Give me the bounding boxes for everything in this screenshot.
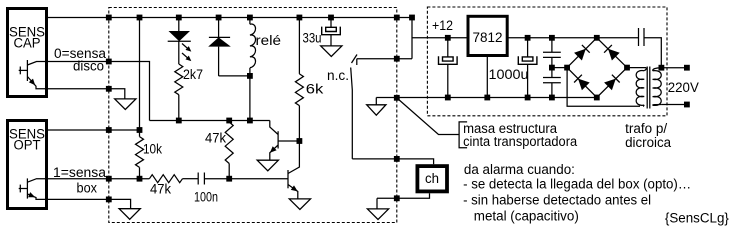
resistor 47k vertical (feedback) (225, 122, 233, 164)
node: relay bottom junction (247, 73, 253, 79)
svg-text:10k: 10k (143, 142, 162, 157)
resistor 2k7 (178, 41, 180, 64)
wire: supply ground rail (376, 97, 597, 99)
svg-text:100n: 100n (194, 190, 218, 205)
ground (321, 46, 342, 57)
wire: +12 feed into supply (412, 37, 467, 39)
svg-text:33u: 33u (303, 31, 322, 46)
sensor module SENS OPT (optical sensor box) (8, 121, 47, 209)
wire: primary to 220V terminals (661, 67, 687, 69)
svg-text:ch: ch (425, 171, 439, 186)
svg-text:1000u: 1000u (489, 67, 529, 82)
wire: rail drop to SENS OPT supply (139, 18, 141, 131)
ground (257, 160, 278, 171)
svg-text:47k: 47k (150, 182, 171, 197)
svg-text:metal (capacitivo): metal (capacitivo) (474, 209, 579, 224)
wire: SENS OPT ground lead (48, 199, 131, 208)
svg-text:47k: 47k (205, 131, 226, 146)
bridge diode D-topright (608, 49, 620, 61)
wire: n.c. bottom to chicharra (352, 159, 433, 164)
wire: 100n to Q2 base (204, 178, 287, 180)
primary winding (653, 68, 662, 71)
svg-text:dicroica: dicroica (625, 135, 671, 150)
bridge diode D-bottomright (604, 79, 616, 91)
node: Q1 base / 6k / Q2 collector (297, 138, 303, 144)
wire: Q2 collector riser (288, 141, 299, 174)
capacitor 33u (322, 18, 341, 46)
svg-text:OPT: OPT (14, 138, 41, 153)
LED indicator (168, 18, 192, 62)
wire: cap stack mid to bridge AC1 (552, 67, 567, 69)
core (646, 67, 648, 109)
svg-text:7812: 7812 (473, 29, 503, 45)
bracket: masa estructura (459, 122, 467, 148)
ground (376, 198, 378, 209)
svg-text:1=sensa: 1=sensa (53, 165, 107, 180)
capacitor 1000u (518, 35, 537, 101)
transistor Q2 (288, 170, 298, 199)
wire: rail corner down to +12 feed (411, 18, 413, 59)
resistor 10k (139, 130, 141, 137)
resistor 47k horizontal (149, 175, 182, 183)
wire: 7812 output / raw DC rail (507, 37, 638, 39)
wire: masa estructura tap (398, 99, 460, 135)
wire: SENS OPT output (1=sensa box) (48, 178, 149, 180)
buzzer ch box (417, 166, 447, 191)
dashed enclosure: power supply (427, 7, 667, 116)
switch n.c. (normally closed contact) (351, 55, 357, 159)
node: sensa disco junction (106, 59, 112, 65)
svg-text:6k: 6k (306, 82, 324, 97)
ground (115, 99, 136, 110)
capacitor (series to primary) (639, 28, 662, 68)
svg-text:2k7: 2k7 (183, 67, 203, 82)
wire: Q1 collector node (relay drive) (150, 120, 270, 122)
phototransistor inside SENS CAP (19, 60, 48, 89)
svg-text:relé: relé (256, 33, 282, 48)
svg-text:box: box (77, 181, 98, 196)
bridge rectifier (564, 35, 630, 101)
secondary winding (627, 68, 646, 71)
phototransistor inside SENS OPT (19, 178, 48, 199)
wire: n.c. top to +12 corner (357, 58, 412, 60)
svg-text:cinta transportadora: cinta transportadora (463, 134, 577, 149)
bridge diode D-bottomleft (578, 79, 590, 91)
wire: SENS CAP ground lead (48, 89, 125, 99)
diode (relay flyback) (208, 18, 231, 76)
svg-text:+12: +12 (432, 18, 453, 33)
svg-text:- se detecta la llegada del bo: - se detecta la llegada del box (opto)… (463, 177, 691, 192)
svg-text:{SensCLg}: {SensCLg} (665, 211, 729, 226)
node +12 (445, 35, 451, 41)
svg-text:disco: disco (73, 58, 104, 73)
ground (119, 209, 140, 220)
wire: diode to relay coil bottom (219, 75, 250, 77)
wire: SENS CAP output (0=sensa disco) (48, 62, 150, 121)
bridge diode D-topleft (574, 49, 586, 61)
wire: ch bottom return (377, 193, 430, 198)
capacitor stack lower (543, 65, 561, 101)
sensor module SENS CAP (capacitive sensor box) (8, 9, 47, 97)
capacitor stack upper (543, 35, 561, 68)
svg-text:trafo p/: trafo p/ (625, 121, 667, 136)
svg-text:- sin haberse detectado antes: - sin haberse detectado antes el (463, 193, 651, 208)
wire: 7812 ground pin (486, 56, 488, 98)
terminal 220V top (684, 65, 690, 71)
wire: bridge AC1 down-around to secondary bottom (567, 68, 640, 107)
ground (375, 98, 377, 105)
node squares on +12 rail (106, 15, 400, 21)
capacitor 100n (197, 173, 199, 185)
svg-text:da alarma cuando:: da alarma cuando: (464, 162, 575, 177)
capacitor (regulator input) (439, 38, 458, 98)
dashed enclosure: alarm logic circuit (109, 8, 397, 223)
relay coil (relé) (250, 18, 256, 121)
resistor 6k (298, 18, 300, 74)
ground (289, 199, 310, 210)
regulator U1 7812 (468, 16, 507, 55)
wire: SENS OPT top lead (48, 129, 140, 131)
transistor Q1 (270, 121, 300, 161)
svg-text:220V: 220V (668, 80, 699, 95)
transformer trafo (627, 65, 664, 109)
svg-text:CAP: CAP (14, 36, 41, 51)
terminal 220V bottom (684, 102, 690, 108)
svg-text:n.c.: n.c. (327, 68, 349, 83)
wire: +12 top rail (48, 17, 413, 19)
